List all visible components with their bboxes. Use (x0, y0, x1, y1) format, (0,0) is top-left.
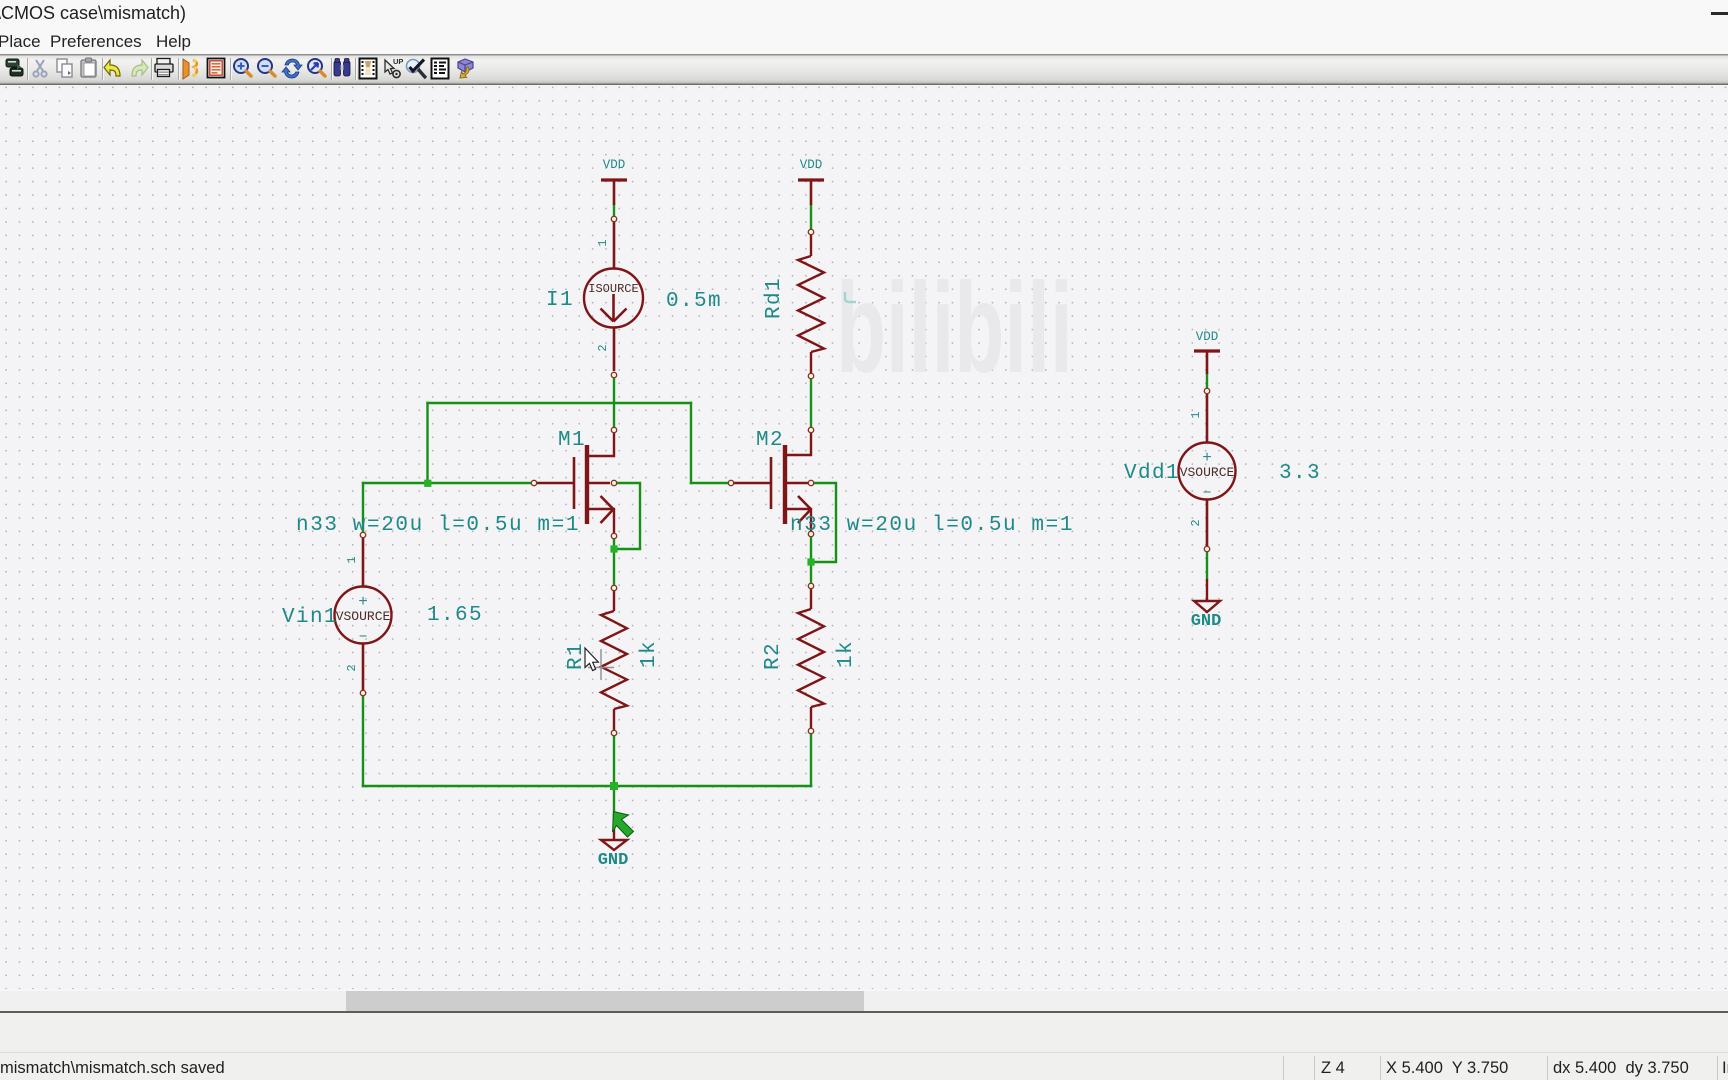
wire gnd stem (613, 786, 615, 814)
pin 1 of Rd1 (808, 229, 813, 234)
wire VDD to I1 pin1 (613, 205, 615, 216)
wire VDD to Vdd1 pin1 (1206, 374, 1208, 388)
power VDD symbol above Vdd1 (1194, 351, 1220, 374)
wire Vin1 to M1 gate (363, 482, 531, 484)
wire gate bus right drop (690, 403, 692, 483)
pin B of M2 (808, 480, 813, 485)
svg-text:VSOURCE: VSOURCE (1180, 465, 1235, 480)
pin 1 of I1 (611, 216, 616, 221)
pin D of M2 (808, 427, 813, 432)
wire Vin1 pin1 drop (362, 483, 364, 532)
wire M2 drain to Rd1 (810, 379, 812, 427)
pin 1 of Vdd1 (1204, 388, 1209, 393)
svg-text:1k: 1k (835, 640, 858, 668)
svg-text:VDD: VDD (800, 158, 823, 172)
transistor M1 (537, 433, 614, 533)
wire Vin1 pin2 drop (362, 696, 364, 786)
svg-text:1: 1 (1189, 411, 1203, 418)
wire Rd1 top to VDD (810, 205, 812, 229)
svg-text:Vdd1: Vdd1 (1124, 462, 1180, 485)
svg-text:2: 2 (1189, 519, 1203, 526)
pin 2 of Rd1 (808, 373, 813, 378)
wire M2 bulk loop (813, 483, 836, 562)
svg-text:3.3: 3.3 (1279, 462, 1321, 485)
pin 2 of R2 (808, 728, 813, 733)
svg-text:GND: GND (1191, 612, 1222, 631)
svg-text:ISOURCE: ISOURCE (588, 282, 638, 296)
wire Vdd1 pin2 to GND (1206, 552, 1208, 579)
svg-text:n33 w=20u l=0.5u m=1: n33 w=20u l=0.5u m=1 (790, 514, 1074, 537)
pin 2 of Vin1 (360, 690, 365, 695)
wire M1 source to R1 (613, 539, 615, 585)
pin 1 of R2 (808, 583, 813, 588)
svg-text:VDD: VDD (603, 158, 626, 172)
pin B of M1 (611, 480, 616, 485)
pin 2 of R1 (611, 730, 616, 735)
svg-text:bilibili: bilibili (836, 256, 1073, 399)
svg-text:VSOURCE: VSOURCE (336, 609, 391, 624)
junction node M1 source/bulk (610, 545, 617, 552)
pin G of M2 (728, 480, 733, 485)
svg-text:Rd1: Rd1 (763, 277, 786, 319)
wire to M2 gate (691, 482, 728, 484)
svg-text:VDD: VDD (1196, 330, 1219, 344)
svg-text:n33 w=20u l=0.5u m=1: n33 w=20u l=0.5u m=1 (296, 514, 580, 537)
junction node M2 source/bulk (807, 558, 814, 565)
power VDD symbol above I1 (601, 180, 627, 205)
pin S of M1 (611, 533, 616, 538)
svg-text:0.5m: 0.5m (666, 290, 722, 313)
ground symbol (Vdd1) (1194, 579, 1220, 612)
faint mark near Rd1 (845, 292, 856, 302)
wire gate bus left drop (426, 403, 428, 483)
pin S of M2 (808, 531, 813, 536)
resistor Rd1 (798, 235, 824, 373)
svg-text:1: 1 (345, 556, 359, 563)
wire M2 source to R2 (810, 537, 812, 583)
svg-text:M2: M2 (756, 429, 784, 452)
current source I1 (584, 222, 643, 371)
ground symbol (main) (601, 814, 627, 850)
svg-text:–: – (1202, 483, 1212, 501)
pin 1 of R1 (611, 585, 616, 590)
wire I1 pin2 to M1 drain (613, 378, 615, 427)
pin 2 of Vdd1 (1204, 546, 1209, 551)
svg-text:Vin1: Vin1 (282, 606, 338, 629)
green pointer at GND (613, 812, 634, 838)
mouse arrow cursor (585, 648, 598, 671)
junction node gate bus / Vin wire (424, 480, 431, 487)
svg-text:GND: GND (598, 851, 629, 870)
wire gnd bus horizontal (363, 785, 811, 788)
crosshair cursor near R1 (588, 649, 614, 680)
svg-text:I1: I1 (546, 289, 574, 312)
resistor R1 (601, 591, 627, 730)
pin D of M1 (611, 427, 616, 432)
svg-text:R2: R2 (762, 642, 785, 670)
svg-text:1.65: 1.65 (427, 604, 483, 627)
voltage source Vin1 (335, 538, 392, 690)
svg-text:2: 2 (596, 344, 610, 351)
svg-text:2: 2 (345, 664, 359, 671)
resistor R2 (798, 589, 824, 728)
svg-text:1k: 1k (638, 640, 661, 668)
pin 2 of I1 (611, 372, 616, 377)
power VDD symbol above Rd1 (798, 180, 824, 205)
junction node ground bus (610, 782, 618, 790)
wire M1 bulk loop (616, 483, 640, 549)
voltage source Vdd1 (1179, 394, 1236, 546)
pin 1 of Vin1 (360, 532, 365, 537)
wire R1 bottom to gnd bus (613, 736, 615, 786)
wire R2 bottom to gnd bus (810, 734, 812, 786)
transistor M2 (734, 433, 811, 531)
svg-text:–: – (358, 627, 368, 645)
svg-text:1: 1 (596, 239, 610, 246)
pin G of M1 (531, 480, 536, 485)
wire gate bus horizontal (428, 402, 692, 404)
svg-text:M1: M1 (558, 429, 586, 452)
